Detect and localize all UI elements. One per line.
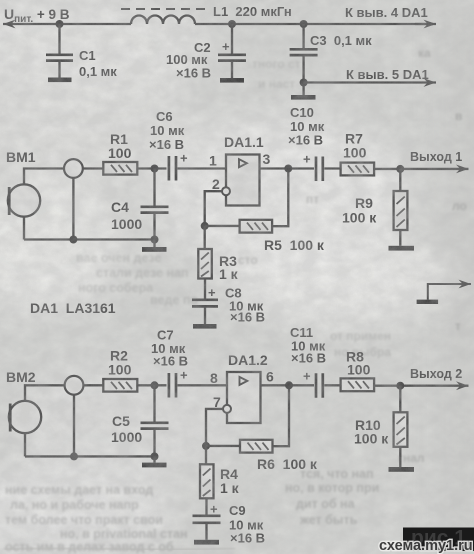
- wire R7 to output arrow: [374, 168, 468, 170]
- ground C4: [142, 240, 167, 252]
- wire mic2 bottom to rail: [24, 433, 26, 456]
- label Выход 2: [410, 367, 462, 381]
- resistor R5: [240, 220, 273, 233]
- op-amp DA1.2: [227, 372, 261, 423]
- label C11 value: [290, 325, 326, 366]
- capacitor C1: [46, 24, 73, 78]
- label Выход 1: [410, 150, 462, 164]
- wire terminal to R1: [83, 167, 104, 169]
- node mic2/rail: [70, 452, 78, 460]
- label R7 100: [343, 131, 367, 161]
- capacitor C11 polarized: [303, 369, 323, 398]
- node feedback/R3: [201, 222, 209, 230]
- inversion bubble pin2: [222, 187, 230, 195]
- node C4/rail ground: [151, 236, 159, 244]
- wire top power rail right segment: [195, 23, 433, 25]
- resistor R4: [200, 446, 214, 515]
- wire mic bottom to rail: [23, 217, 25, 240]
- label DA1 LA3161: [30, 300, 116, 316]
- label R3 1 к: [219, 253, 239, 282]
- wire C7 to pin8: [178, 384, 228, 386]
- wire C10 to R7: [324, 167, 340, 169]
- ground C5: [142, 456, 167, 467]
- wire node to R6: [206, 445, 240, 447]
- pin 3: [263, 151, 271, 167]
- label C1 value: [79, 48, 117, 79]
- node R10 tap: [396, 382, 404, 390]
- capacitor C5: [141, 385, 169, 456]
- node pin5 wire: [300, 79, 308, 87]
- capacitor C7 polarized: [169, 368, 188, 398]
- resistor R7: [341, 163, 375, 176]
- pin 1: [209, 153, 217, 169]
- resistor R1: [103, 162, 137, 175]
- node R9 tap: [396, 165, 404, 173]
- label C5 1000: [111, 413, 142, 445]
- wire C11 to R8: [324, 384, 340, 386]
- label C10 value: [288, 105, 325, 148]
- wire ch2 bottom rail: [25, 455, 155, 457]
- label К выв. 4 DA1: [345, 5, 428, 20]
- label R10 100 к: [354, 417, 389, 447]
- label R1 100: [108, 131, 132, 161]
- pin 6: [266, 369, 274, 385]
- svg-text:схема.my1.ru: схема.my1.ru: [379, 538, 473, 554]
- resistor R6: [240, 440, 273, 453]
- wire ch1 bottom rail: [24, 238, 155, 240]
- inductor L1: [131, 16, 195, 24]
- pin 8: [210, 370, 218, 386]
- label L1 220 мкГн: [213, 4, 292, 19]
- node C5 tap: [151, 381, 159, 389]
- label R5 100 к: [264, 237, 325, 253]
- label C4 1000: [111, 199, 142, 232]
- inversion bubble pin7: [223, 405, 231, 413]
- arrow to pin 4: [415, 23, 436, 25]
- wire terminal2 to R2: [83, 384, 103, 386]
- wire node to R5: [205, 225, 240, 227]
- capacitor C10 polarized: [303, 152, 323, 182]
- node C3/rail: [300, 20, 308, 28]
- label C6 value: [149, 109, 185, 152]
- ground C9: [194, 540, 219, 545]
- op-amp DA1.1: [226, 155, 260, 206]
- wire terminal down to rail: [72, 178, 74, 240]
- microphone BM2: [9, 401, 41, 433]
- watermark: [379, 538, 473, 554]
- wire top power rail (left segment with arrow to the left): [3, 23, 131, 25]
- wire terminal2 down to rail: [73, 395, 75, 457]
- wire mic2 top to terminal: [25, 385, 65, 401]
- node output ch1: [284, 165, 292, 173]
- wire pin3 out: [260, 167, 315, 169]
- pin 7: [213, 394, 221, 410]
- wire R5 to output node: [272, 169, 288, 227]
- terminal circle BM1 out: [64, 159, 83, 178]
- resistor R2: [103, 379, 137, 392]
- ground C3: [291, 95, 316, 100]
- jack mark with arrow: [417, 284, 471, 304]
- label К выв. 5 DA1: [346, 67, 429, 82]
- label BM1: [6, 149, 36, 165]
- ground R9: [389, 246, 415, 251]
- wire C6 to pin1: [178, 167, 227, 169]
- node mic/rail: [69, 236, 77, 244]
- label Uпит +9V: [4, 6, 70, 25]
- label DA1.1: [224, 134, 264, 150]
- wire mic top to terminal: [24, 169, 64, 185]
- label R9 100 к: [342, 195, 377, 226]
- wire R2 to C7: [137, 384, 166, 386]
- node feedback/R4: [202, 442, 210, 450]
- wire R6 to output node: [273, 385, 290, 446]
- label C2 value: [166, 40, 211, 81]
- terminal circle BM2 out: [65, 376, 84, 395]
- wire to pin 5: [304, 81, 436, 83]
- wire pin7 feedback left: [206, 409, 223, 446]
- label R8 100: [346, 349, 371, 378]
- label DA1.2: [228, 352, 268, 368]
- capacitor C3: [290, 24, 318, 95]
- wire pin2 feedback left: [205, 191, 222, 226]
- figure label box: [403, 527, 474, 552]
- label C3 value: [310, 33, 372, 48]
- capacitor C4: [141, 169, 169, 240]
- microphone BM1: [8, 184, 40, 216]
- resistor R9: [394, 169, 408, 246]
- capacitor C8 polarized: [192, 285, 218, 324]
- resistor R10: [394, 386, 408, 467]
- label C9 value: [229, 503, 265, 546]
- label BM2: [6, 369, 36, 385]
- ground R10: [389, 467, 415, 472]
- node output ch2: [285, 381, 293, 389]
- ground C1: [48, 78, 72, 83]
- capacitor C2 polarized: [218, 24, 246, 78]
- label C8 value: [225, 286, 265, 325]
- label R2 100: [108, 348, 132, 378]
- label C7 value: [151, 328, 188, 369]
- shield dashed line above L1: [121, 8, 207, 10]
- ground C8: [193, 324, 217, 329]
- wire R8 to output arrow: [374, 385, 468, 387]
- ground C2: [220, 78, 244, 83]
- node C5/rail ground: [151, 452, 159, 460]
- pin 2: [212, 176, 220, 192]
- resistor R3: [198, 226, 212, 299]
- capacitor C9 polarized: [193, 502, 221, 540]
- node L1/C2: [228, 20, 236, 28]
- node C4 tap: [151, 165, 159, 173]
- node C1/rail: [56, 20, 64, 28]
- wire pin6 out: [261, 384, 315, 386]
- resistor R8: [341, 378, 375, 391]
- label R6 100 к: [257, 456, 318, 472]
- capacitor C6 polarized: [169, 151, 188, 181]
- label R4 1 к: [220, 466, 240, 496]
- wire R1 to C6: [137, 167, 166, 169]
